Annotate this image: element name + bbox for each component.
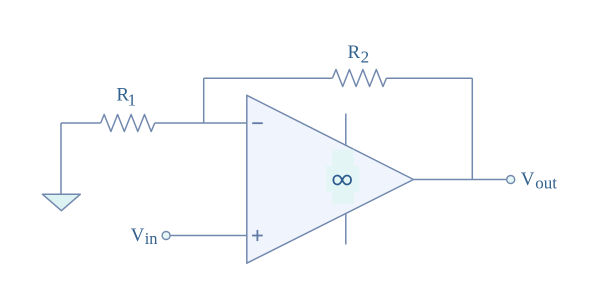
- wire (negative supply lead): [345, 213, 347, 244]
- wire (non-inverting input): [170, 235, 247, 237]
- svg-text:2: 2: [361, 47, 370, 66]
- label Vout: [521, 169, 557, 192]
- node Vout terminal: [507, 176, 515, 184]
- wire (output): [414, 179, 507, 181]
- node highlight (infinity gain patch): [326, 150, 359, 204]
- label Vin: [131, 225, 158, 248]
- svg-text:in: in: [145, 229, 158, 248]
- svg-text:R: R: [348, 42, 361, 63]
- wire (ground branch horizontal, node A to R1): [61, 122, 101, 124]
- wire (vertical down to ground): [60, 123, 62, 194]
- ground: [43, 194, 81, 210]
- resistor R1: [101, 115, 155, 132]
- svg-text:1: 1: [128, 91, 137, 110]
- node Vin terminal: [162, 232, 170, 240]
- svg-text:V: V: [521, 169, 535, 190]
- pin - (inverting input marker): [252, 122, 263, 124]
- resistor R2: [333, 70, 387, 87]
- op-amp U1 (ideal, triangle body): [247, 95, 414, 263]
- wire (R2 to right feedback corner): [387, 77, 473, 79]
- svg-text:V: V: [131, 225, 145, 246]
- label R2: [348, 42, 370, 66]
- wire (R1 to inverting input, with junction): [155, 122, 247, 124]
- svg-text:out: out: [535, 174, 557, 193]
- wire (top feedback to R2): [204, 77, 333, 79]
- label infinity (ideal gain): [333, 176, 351, 185]
- label R1: [116, 84, 136, 109]
- wire (feedback drop to output node): [471, 78, 473, 179]
- pin + (non-inverting input marker): [252, 230, 263, 241]
- wire (feedback riser at junction): [203, 78, 205, 123]
- wire (positive supply lead): [345, 114, 347, 146]
